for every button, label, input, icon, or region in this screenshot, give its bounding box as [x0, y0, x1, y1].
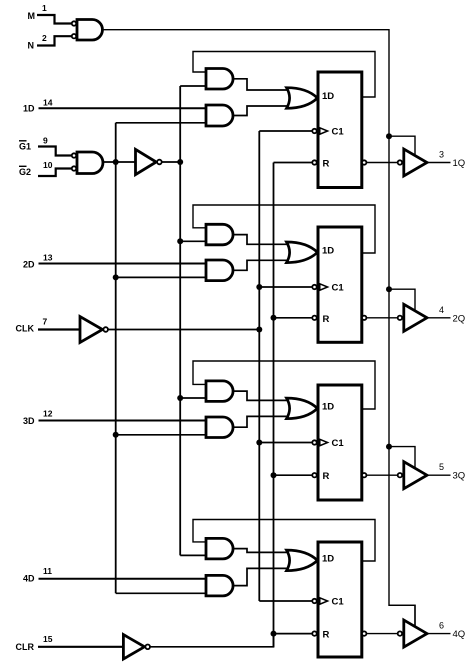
stage4 hold AND gate: [206, 538, 233, 559]
junction reset rail / stage3 R branch: [271, 472, 277, 478]
svg-text:10: 10: [43, 160, 53, 170]
buffer4 input bubble: [398, 631, 402, 635]
stage1 hold AND gate: [206, 69, 233, 90]
svg-text:4D: 4D: [23, 574, 35, 584]
svg-text:15: 15: [43, 634, 53, 644]
svg-text:3D: 3D: [23, 416, 35, 426]
svg-text:9: 9: [43, 136, 48, 146]
junction clock rail / stage2 C1 branch: [256, 284, 262, 290]
wire M input: [37, 15, 72, 24]
stage4 R input bubble: [312, 631, 316, 635]
junction rail B / stage3 hold-enable branch: [177, 395, 183, 401]
stage3 flip-flop output bubble: [362, 473, 366, 477]
stage1 flip-flop output bubble: [362, 160, 366, 164]
wire stage3 Q to output buffer: [366, 474, 397, 476]
junction enable net / rail A: [113, 159, 119, 165]
svg-text:CLK: CLK: [16, 324, 35, 334]
junction inverted-enable net / rail B: [177, 159, 183, 165]
stage3 R input bubble: [312, 473, 316, 477]
wire rail B to stage3 hold AND input: [180, 397, 206, 399]
stage4 load AND gate: [206, 575, 233, 596]
buffer1 input bubble: [398, 160, 402, 164]
svg-text:1: 1: [42, 3, 47, 13]
wire 4Q output: [427, 633, 451, 635]
wire enable net (gate output to inverter): [103, 161, 136, 163]
svg-text:4: 4: [439, 305, 444, 315]
rail B (hold-enable vertical): [179, 86, 181, 555]
wire output-enable to buffer1: [389, 136, 415, 155]
wire N input: [37, 36, 72, 45]
stage3 C1 dynamic-input wedge: [320, 439, 328, 445]
svg-text:2: 2: [42, 33, 47, 43]
wire G2 input: [38, 169, 72, 177]
stage1 three-state output buffer: [404, 149, 427, 176]
wire 1D data line: [39, 107, 207, 109]
stage2 load AND gate: [206, 260, 233, 281]
CLK inverter: [80, 317, 103, 343]
svg-text:N: N: [28, 41, 35, 51]
wire CLK input: [38, 328, 80, 330]
svg-text:14: 14: [43, 98, 53, 108]
wire reset to stage4 R: [274, 633, 313, 635]
stage4 three-state output buffer: [404, 620, 427, 647]
wire clock to stage2 C1: [259, 286, 312, 288]
wire stage3 feedback loop (Q back to hold AND): [193, 361, 375, 409]
svg-text:R: R: [323, 159, 330, 170]
stage4 D flip-flop: [318, 542, 362, 657]
wire stage2 Q to output buffer: [366, 317, 397, 319]
wire 2D data line: [39, 263, 207, 265]
wire output-enable to buffer3: [389, 447, 415, 469]
stage3 hold AND gate: [206, 381, 233, 402]
svg-text:M: M: [28, 11, 36, 21]
wire rail A to stage1 load AND input: [116, 122, 206, 124]
wire clock to stage4 C1: [259, 600, 312, 602]
stage1 R input bubble: [312, 160, 316, 164]
reset rail (vertical): [273, 163, 275, 648]
junction reset rail / stage4 R branch: [271, 631, 277, 637]
stage4 C1 input bubble: [312, 599, 316, 603]
rail A (load-enable vertical): [115, 123, 117, 594]
wire stage3 load AND output to OR: [233, 416, 295, 427]
wire reset to stage1 R: [274, 162, 313, 164]
input bubble M: [72, 21, 76, 25]
svg-text:2D: 2D: [23, 260, 35, 270]
stage1 OR gate: [287, 88, 318, 109]
svg-text:C1: C1: [332, 127, 345, 138]
stage2 R input bubble: [312, 316, 316, 320]
wire rail A to stage3 load AND input: [116, 434, 206, 436]
input bubble G2: [72, 166, 76, 170]
wire stage1 Q to output buffer: [366, 162, 397, 164]
svg-text:12: 12: [43, 409, 53, 419]
wire 4D data line: [39, 578, 207, 580]
wire 3Q output: [427, 474, 451, 476]
wire rail B to stage4 hold AND input: [180, 554, 206, 556]
stage3 load AND gate: [206, 417, 233, 438]
wire rail B to stage1 hold AND input: [180, 85, 206, 87]
wire stage2 hold AND output to OR: [233, 235, 295, 245]
junction CLK net / clock rail: [256, 327, 262, 333]
stage2 three-state output buffer: [404, 304, 427, 331]
wire stage4 feedback loop (Q back to hold AND): [193, 520, 375, 562]
junction output-enable rail / buffer3 branch: [386, 444, 392, 450]
svg-text:1D: 1D: [322, 554, 334, 565]
svg-text:R: R: [323, 630, 330, 641]
junction output-enable rail / buffer1 branch: [386, 133, 392, 139]
wire output-enable to buffer4: [389, 605, 415, 626]
svg-text:1Q: 1Q: [453, 158, 466, 169]
wire 1Q output: [427, 162, 451, 164]
enable inverter: [136, 149, 157, 174]
wire rail A to stage2 load AND input: [116, 276, 206, 278]
svg-text:C1: C1: [332, 283, 345, 294]
stage2 C1 dynamic-input wedge: [320, 284, 328, 290]
wire clock to stage3 C1: [259, 442, 312, 444]
wire stage1 hold AND output to OR: [233, 79, 295, 90]
wire 2Q output: [427, 317, 451, 319]
junction rail A / stage3 load-enable branch: [113, 432, 119, 438]
wire stage2 load AND output to OR: [233, 260, 295, 270]
svg-text:R: R: [323, 314, 330, 325]
input bubble N: [72, 34, 76, 38]
junction clock rail / stage3 C1 branch: [256, 440, 262, 446]
wire CLR input: [38, 646, 123, 648]
wire CLR net to reset rail: [149, 634, 274, 647]
overline over G1: [19, 140, 27, 142]
stage1 C1 dynamic-input wedge: [320, 128, 328, 134]
wire stage1 load AND output to OR: [233, 106, 295, 116]
svg-text:5: 5: [439, 462, 444, 472]
stage2 hold AND gate: [206, 224, 233, 245]
data-enable AND gate (G1,G2 inputs negated): [77, 152, 103, 174]
svg-text:6: 6: [439, 621, 444, 631]
wire stage1 feedback loop (Q back to hold AND): [193, 52, 375, 98]
wire rail A to stage4 load AND input: [116, 592, 206, 594]
svg-text:C1: C1: [332, 438, 345, 449]
wire G1 input: [38, 147, 72, 156]
CLR inverter: [123, 635, 144, 659]
svg-text:11: 11: [43, 566, 52, 576]
stage3 three-state output buffer: [404, 462, 427, 489]
overline over G2: [19, 165, 27, 167]
wire CLK net to clock rail: [107, 329, 259, 331]
stage4 OR gate: [287, 550, 318, 571]
stage1 C1 input bubble: [312, 129, 316, 133]
wire rail B to stage2 hold AND input: [180, 240, 206, 242]
svg-text:3Q: 3Q: [453, 471, 466, 482]
junction rail A / stage2 load-enable branch: [113, 274, 119, 280]
svg-text:4Q: 4Q: [453, 629, 466, 640]
input bubble G1: [72, 153, 76, 157]
stage3 C1 input bubble: [312, 440, 316, 444]
wire inverted-enable net to rail B: [162, 161, 181, 163]
svg-text:3: 3: [439, 150, 444, 160]
wire reset to stage3 R: [274, 474, 313, 476]
wire stage3 hold AND output to OR: [233, 391, 295, 400]
svg-text:1D: 1D: [23, 104, 35, 114]
stage3 OR gate: [287, 398, 318, 419]
wire output-enable net (top run and right rail): [103, 30, 416, 627]
wire stage4 load AND output to OR: [233, 568, 295, 585]
output-enable AND gate (M,N inputs negated): [77, 20, 102, 41]
clock rail (vertical): [258, 131, 260, 601]
stage2 C1 input bubble: [312, 285, 316, 289]
svg-text:CLR: CLR: [16, 642, 35, 652]
svg-text:G2: G2: [19, 167, 31, 177]
svg-text:G1: G1: [19, 142, 31, 152]
wire stage4 hold AND output to OR: [233, 549, 295, 553]
junction output-enable rail / buffer2 branch: [386, 286, 392, 292]
stage2 flip-flop output bubble: [362, 316, 366, 320]
buffer2 input bubble: [398, 316, 402, 320]
svg-text:1D: 1D: [322, 402, 334, 413]
junction rail B / stage2 hold-enable branch: [177, 238, 183, 244]
svg-text:R: R: [323, 471, 330, 482]
wire clock to stage1 C1: [259, 130, 312, 132]
stage4 flip-flop output bubble: [362, 631, 366, 635]
buffer3 input bubble: [398, 473, 402, 477]
wire stage2 feedback loop (Q back to hold AND): [193, 205, 375, 253]
svg-text:C1: C1: [332, 597, 345, 608]
wire reset to stage2 R: [274, 317, 313, 319]
stage1 D flip-flop: [318, 72, 362, 188]
svg-text:7: 7: [43, 317, 48, 327]
wire stage4 Q to output buffer: [366, 633, 397, 635]
svg-text:1D: 1D: [322, 91, 334, 102]
stage2 OR gate: [287, 242, 318, 263]
stage2 D flip-flop: [318, 227, 362, 342]
svg-text:13: 13: [43, 253, 53, 263]
wire 3D data line: [39, 420, 207, 422]
wire output-enable to buffer2: [389, 289, 415, 311]
stage1 load AND gate: [206, 105, 233, 126]
stage3 D flip-flop: [318, 385, 362, 500]
svg-text:1D: 1D: [322, 246, 334, 257]
stage4 C1 dynamic-input wedge: [320, 598, 328, 604]
junction reset rail / stage2 R branch: [271, 315, 277, 321]
svg-text:2Q: 2Q: [453, 313, 466, 324]
